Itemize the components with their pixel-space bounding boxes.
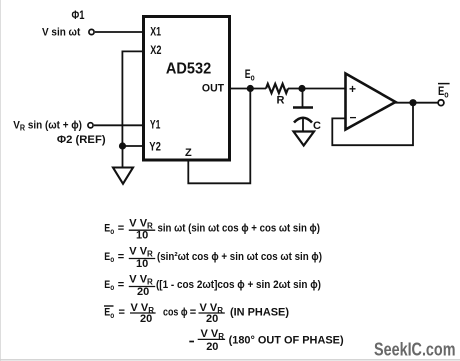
svg-text:sin ωt (sin ωt cos ϕ + cos ωt: sin ωt (sin ωt cos ϕ + cos ωt sin ϕ) bbox=[158, 223, 321, 235]
svg-text:(sin²ωt cos ϕ + sin ωt cos ωt: (sin²ωt cos ϕ + sin ωt cos ωt sin ϕ) bbox=[157, 251, 322, 263]
svg-text:SeekIC.com: SeekIC.com bbox=[374, 339, 456, 359]
svg-text:=: = bbox=[119, 307, 125, 319]
wire op-amp output bbox=[395, 102, 438, 104]
svg-text:20: 20 bbox=[137, 286, 149, 298]
equation 2 bbox=[104, 246, 322, 270]
wire R to RC junction bbox=[288, 88, 302, 90]
terminal Eo-bar output bbox=[438, 100, 444, 106]
ground input side bbox=[113, 168, 133, 184]
wire RC junction to op-amp bbox=[302, 88, 346, 90]
svg-text:=: = bbox=[118, 279, 124, 291]
junction output node bbox=[409, 99, 416, 106]
svg-text:(180° OUT OF PHASE): (180° OUT OF PHASE) bbox=[229, 335, 344, 347]
equation 5 bbox=[189, 328, 344, 353]
svg-text:10: 10 bbox=[136, 258, 148, 270]
svg-text:Z: Z bbox=[185, 147, 192, 159]
svg-text:20: 20 bbox=[206, 341, 218, 353]
wire Y2 from junction bbox=[123, 145, 144, 147]
capacitor C bbox=[293, 89, 313, 132]
equation 4 bbox=[104, 302, 289, 325]
wire feedback loop bbox=[332, 103, 413, 146]
svg-text:([1 - cos 2ωt]cos ϕ + sin 2ωt: ([1 - cos 2ωt]cos ϕ + sin 2ωt sin ϕ) bbox=[156, 279, 321, 291]
node Eo junction bbox=[247, 85, 254, 92]
svg-text:=: = bbox=[118, 223, 124, 235]
svg-text:C: C bbox=[313, 120, 321, 132]
equation 3 bbox=[104, 274, 321, 299]
svg-text:Φ2 (REF): Φ2 (REF) bbox=[57, 134, 106, 146]
svg-text:R: R bbox=[277, 95, 285, 107]
equation 1 bbox=[104, 217, 320, 241]
ground filter side bbox=[294, 132, 315, 146]
wire junction to ground bbox=[122, 146, 124, 168]
svg-text:AD532: AD532 bbox=[166, 61, 211, 78]
svg-text:=: = bbox=[118, 251, 124, 263]
wire X1 input bbox=[95, 31, 144, 33]
svg-text:OUT: OUT bbox=[202, 83, 224, 95]
svg-text:=: = bbox=[190, 307, 196, 319]
svg-text:10: 10 bbox=[136, 230, 148, 242]
svg-text:20: 20 bbox=[206, 313, 218, 325]
resistor R bbox=[266, 84, 288, 93]
svg-text:V sin ωt: V sin ωt bbox=[42, 26, 81, 38]
svg-text:Y2: Y2 bbox=[149, 139, 161, 153]
junction Y2 node bbox=[119, 142, 126, 149]
svg-text:cos ϕ: cos ϕ bbox=[163, 307, 188, 319]
wire Z feedback bbox=[188, 89, 250, 184]
wire X2 to junction bbox=[122, 51, 143, 146]
terminal X1 input bbox=[89, 29, 94, 34]
junction RC node bbox=[298, 85, 305, 92]
svg-text:Y1: Y1 bbox=[150, 118, 161, 132]
label Eo-bar bbox=[438, 84, 450, 100]
multiplier U1 AD532 body bbox=[144, 17, 230, 161]
svg-text:20: 20 bbox=[140, 313, 152, 325]
terminal Y1 input bbox=[88, 123, 93, 128]
svg-text:+: + bbox=[349, 82, 356, 96]
svg-text:X1: X1 bbox=[150, 25, 161, 39]
svg-text:X2: X2 bbox=[150, 43, 161, 57]
op-amp U2 bbox=[346, 74, 396, 130]
wire Y1 input bbox=[94, 124, 144, 126]
svg-text:−: − bbox=[350, 111, 357, 125]
svg-text:(IN PHASE): (IN PHASE) bbox=[230, 306, 289, 318]
svg-text:Φ1: Φ1 bbox=[72, 8, 85, 22]
wire OUT to Eo node bbox=[230, 88, 267, 90]
